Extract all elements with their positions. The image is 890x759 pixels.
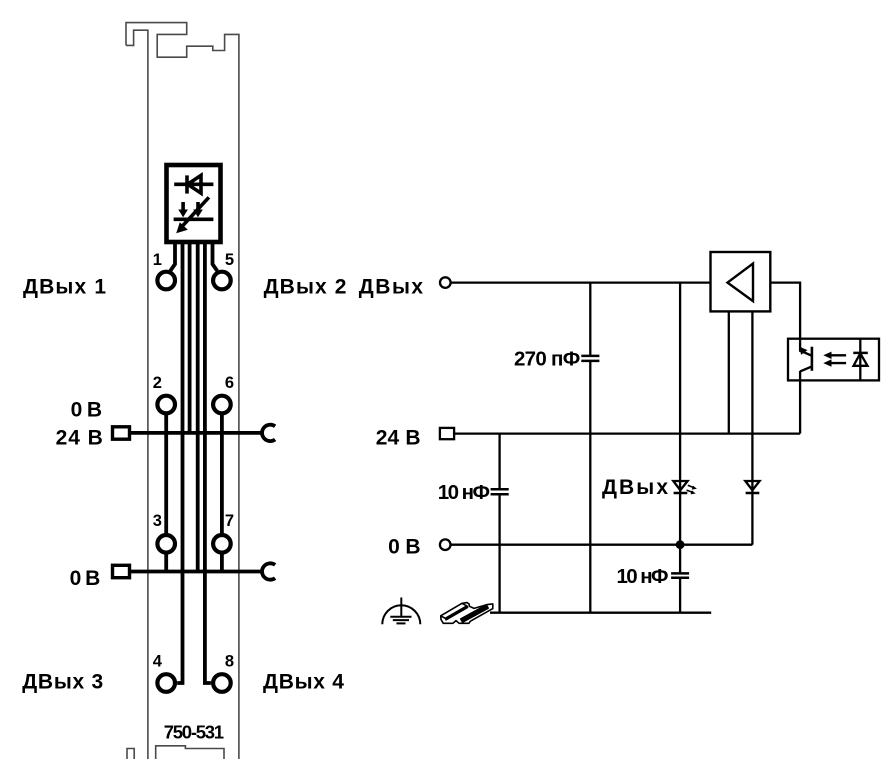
capacitor C2 10nF (24V to ground) bbox=[498, 434, 500, 489]
svg-text:ДВых 4: ДВых 4 bbox=[263, 671, 344, 694]
ground rail bbox=[490, 612, 711, 614]
wire: terminal 3 to 0V jumper rail bbox=[164, 553, 168, 572]
module housing outline (left profile + left edge) bbox=[126, 23, 239, 759]
0V rail bbox=[451, 544, 753, 546]
svg-text:ДВых: ДВых bbox=[602, 476, 668, 499]
wire W4: box to terminal 8 bbox=[205, 242, 211, 683]
24V power jumper contact (square, left) bbox=[113, 427, 130, 439]
diode D3 (suppressor on driver pin B branch) bbox=[745, 481, 759, 490]
svg-text:5: 5 bbox=[225, 251, 234, 269]
svg-text:3: 3 bbox=[153, 512, 162, 530]
svg-text:0 В: 0 В bbox=[388, 536, 421, 559]
0V power jumper rail bbox=[130, 570, 263, 574]
optocoupler U3 bbox=[788, 339, 879, 381]
junction dot (LED branch / 0V rail) bbox=[676, 540, 685, 549]
svg-text:4: 4 bbox=[153, 652, 163, 670]
module bottom-left tab bbox=[127, 749, 134, 759]
svg-text:ДВых 1: ДВых 1 bbox=[23, 276, 106, 299]
wire: terminal 6 to terminal 7 bbox=[220, 414, 224, 536]
wire W2: box to 24V jumper rail bbox=[188, 242, 192, 433]
diode D1 inside LED box (horizontal, pointing left) bbox=[174, 175, 213, 193]
svg-text:270 пФ: 270 пФ bbox=[514, 347, 580, 370]
LED DVyh indicator bbox=[673, 481, 687, 490]
wire: optocoupler to 24V rail bbox=[799, 380, 801, 433]
svg-text:10 нФ: 10 нФ bbox=[617, 565, 669, 588]
LED D4 (inside optocoupler) bbox=[853, 339, 868, 381]
terminal 3 bbox=[157, 535, 175, 553]
svg-text:2: 2 bbox=[153, 374, 162, 392]
LED indicator box U1 bbox=[167, 165, 221, 242]
LED symbol D2 inside LED box (line with two down arrows and diagonal arrow) bbox=[174, 197, 214, 233]
terminal DVyh (circle) bbox=[440, 277, 451, 288]
optocoupler light arrows bbox=[823, 352, 846, 367]
wire: terminal 2 to terminal 3 bbox=[164, 414, 168, 536]
wire W1: box to terminal 4 bbox=[177, 242, 182, 683]
svg-text:750-531: 750-531 bbox=[164, 722, 224, 743]
wire: terminal 7 to 0V jumper rail bbox=[220, 553, 224, 572]
module housing outline (top-left hook + left edge) bbox=[126, 30, 148, 759]
phototransistor Q1 (inside optocoupler) bbox=[799, 339, 812, 381]
terminal 6 bbox=[213, 396, 231, 414]
wire: driver pin B / diode branch to 0V rail bbox=[751, 311, 753, 544]
wire: DVyh rail to driver bbox=[451, 281, 711, 283]
wire: driver output to optocoupler branch bbox=[770, 283, 800, 339]
svg-text:0 В: 0 В bbox=[71, 398, 102, 421]
LED light arrows bbox=[687, 485, 697, 494]
LED branch wire (DVyh to ground rail) bbox=[679, 283, 681, 573]
capacitor C1 270pF (on DVyh branch) bbox=[589, 283, 591, 355]
24V rail bbox=[454, 432, 800, 434]
svg-text:ДВых 3: ДВых 3 bbox=[22, 671, 103, 694]
svg-text:10 нФ: 10 нФ bbox=[438, 481, 490, 504]
terminal 1 bbox=[157, 272, 175, 290]
terminal 2 bbox=[157, 396, 175, 414]
DIN rail symbol (3D) bbox=[441, 603, 493, 624]
wire: box pin to terminal 1 bbox=[170, 242, 175, 271]
module bottom latch bbox=[156, 746, 224, 759]
svg-text:24 В: 24 В bbox=[56, 426, 103, 449]
svg-text:ДВых: ДВых bbox=[359, 276, 424, 299]
terminal 8 bbox=[213, 674, 231, 692]
svg-text:6: 6 bbox=[225, 374, 234, 392]
terminal 0V (circle) bbox=[440, 539, 451, 550]
terminal 4 bbox=[157, 674, 175, 692]
svg-text:24 В: 24 В bbox=[376, 427, 421, 450]
svg-text:7: 7 bbox=[225, 512, 234, 530]
svg-text:0 В: 0 В bbox=[70, 567, 101, 590]
terminal 7 bbox=[213, 535, 231, 553]
24V power jumper contact (spring, right) bbox=[262, 425, 275, 441]
24V power jumper rail bbox=[130, 431, 263, 435]
0V power jumper contact (spring, right) bbox=[262, 563, 275, 579]
terminal 5 bbox=[213, 272, 231, 290]
0V power jumper contact (square, left) bbox=[113, 565, 130, 577]
svg-text:ДВых 2: ДВых 2 bbox=[264, 276, 347, 299]
wire: box pin to terminal 5 bbox=[213, 242, 218, 271]
svg-text:1: 1 bbox=[153, 251, 162, 269]
wire: driver pin A to 24V rail bbox=[728, 311, 730, 433]
svg-text:8: 8 bbox=[225, 652, 234, 670]
terminal 24V (square) bbox=[440, 428, 454, 439]
wire W3: box to 0V jumper rail bbox=[196, 242, 200, 572]
capacitor C3 10nF (LED branch to ground) bbox=[671, 572, 689, 575]
protective earth symbol bbox=[382, 598, 420, 625]
driver U2 (box with triangle) bbox=[711, 252, 771, 311]
